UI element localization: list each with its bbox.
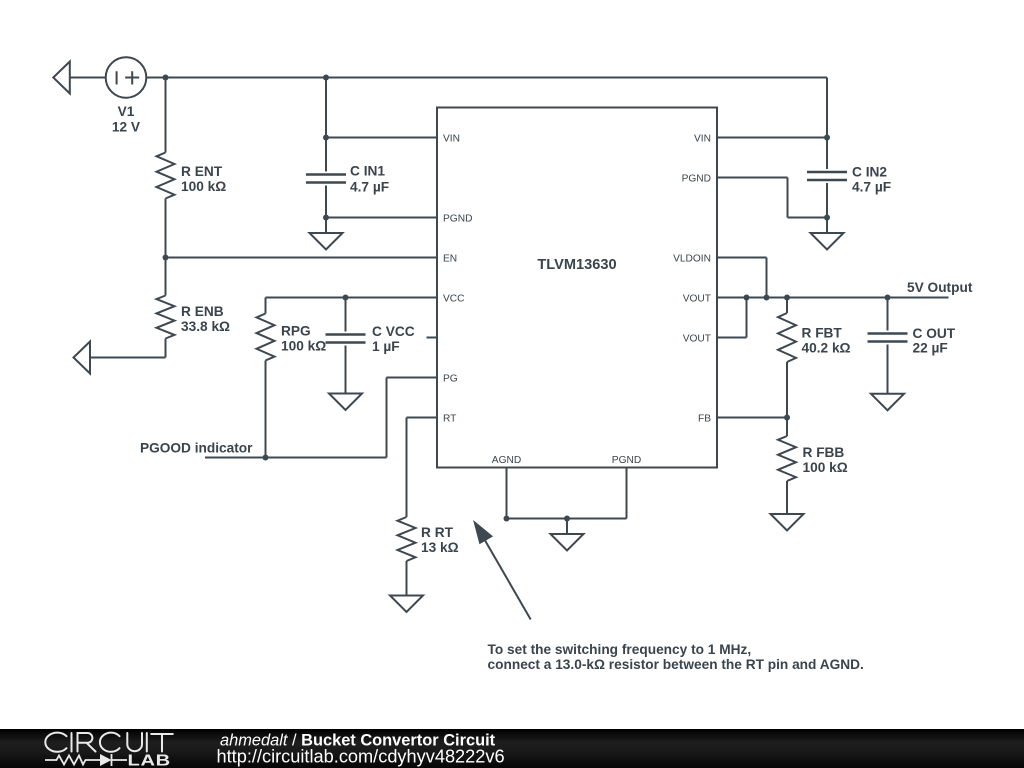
svg-text:C IN1: C IN1 [350, 164, 385, 179]
svg-text:PGND: PGND [612, 455, 641, 466]
svg-text:22 µF: 22 µF [913, 341, 948, 356]
svg-text:100 kΩ: 100 kΩ [181, 179, 226, 194]
svg-text:RT: RT [443, 414, 456, 425]
svg-text:EN: EN [443, 254, 457, 265]
svg-text:R ENB: R ENB [181, 304, 224, 319]
svg-text:VOUT: VOUT [683, 334, 711, 345]
svg-text:VCC: VCC [443, 294, 465, 305]
svg-text:R FBT: R FBT [802, 326, 843, 341]
svg-text:RPG: RPG [281, 324, 311, 339]
svg-text:13 kΩ: 13 kΩ [421, 540, 459, 555]
svg-text:5V Output: 5V Output [907, 280, 973, 295]
svg-text:PGND: PGND [682, 174, 711, 185]
svg-text:4.7 µF: 4.7 µF [350, 180, 389, 195]
svg-text:C VCC: C VCC [372, 324, 415, 339]
svg-text:C OUT: C OUT [913, 326, 956, 341]
svg-text:connect a 13.0-kΩ resistor bet: connect a 13.0-kΩ resistor between the R… [488, 657, 864, 672]
svg-text:LAB: LAB [128, 752, 171, 768]
svg-text:R ENT: R ENT [181, 164, 223, 179]
svg-text:40.2 kΩ: 40.2 kΩ [802, 341, 851, 356]
svg-text:100 kΩ: 100 kΩ [803, 460, 848, 475]
svg-text:FB: FB [698, 414, 711, 425]
svg-text:AGND: AGND [492, 455, 521, 466]
svg-text:R RT: R RT [421, 525, 454, 540]
svg-text:12 V: 12 V [112, 120, 141, 135]
svg-text:TLVM13630: TLVM13630 [537, 257, 616, 273]
svg-text:VOUT: VOUT [683, 294, 711, 305]
svg-text:V1: V1 [118, 104, 135, 119]
svg-text:PGOOD indicator: PGOOD indicator [140, 441, 253, 456]
svg-text:VIN: VIN [443, 134, 460, 145]
svg-text:C IN2: C IN2 [852, 165, 887, 180]
svg-text:http://circuitlab.com/cdyhyv48: http://circuitlab.com/cdyhyv48222v6 [217, 747, 505, 767]
svg-text:33.8 kΩ: 33.8 kΩ [181, 319, 230, 334]
svg-text:PGND: PGND [443, 214, 472, 225]
svg-text:PG: PG [443, 374, 458, 385]
svg-text:100 kΩ: 100 kΩ [281, 339, 326, 354]
svg-text:1 µF: 1 µF [372, 339, 400, 354]
svg-text:R FBB: R FBB [803, 445, 845, 460]
svg-text:To set the switching frequency: To set the switching frequency to 1 MHz, [488, 642, 752, 657]
svg-text:4.7 µF: 4.7 µF [852, 180, 891, 195]
svg-text:VLDOIN: VLDOIN [673, 254, 711, 265]
svg-text:VIN: VIN [694, 134, 711, 145]
